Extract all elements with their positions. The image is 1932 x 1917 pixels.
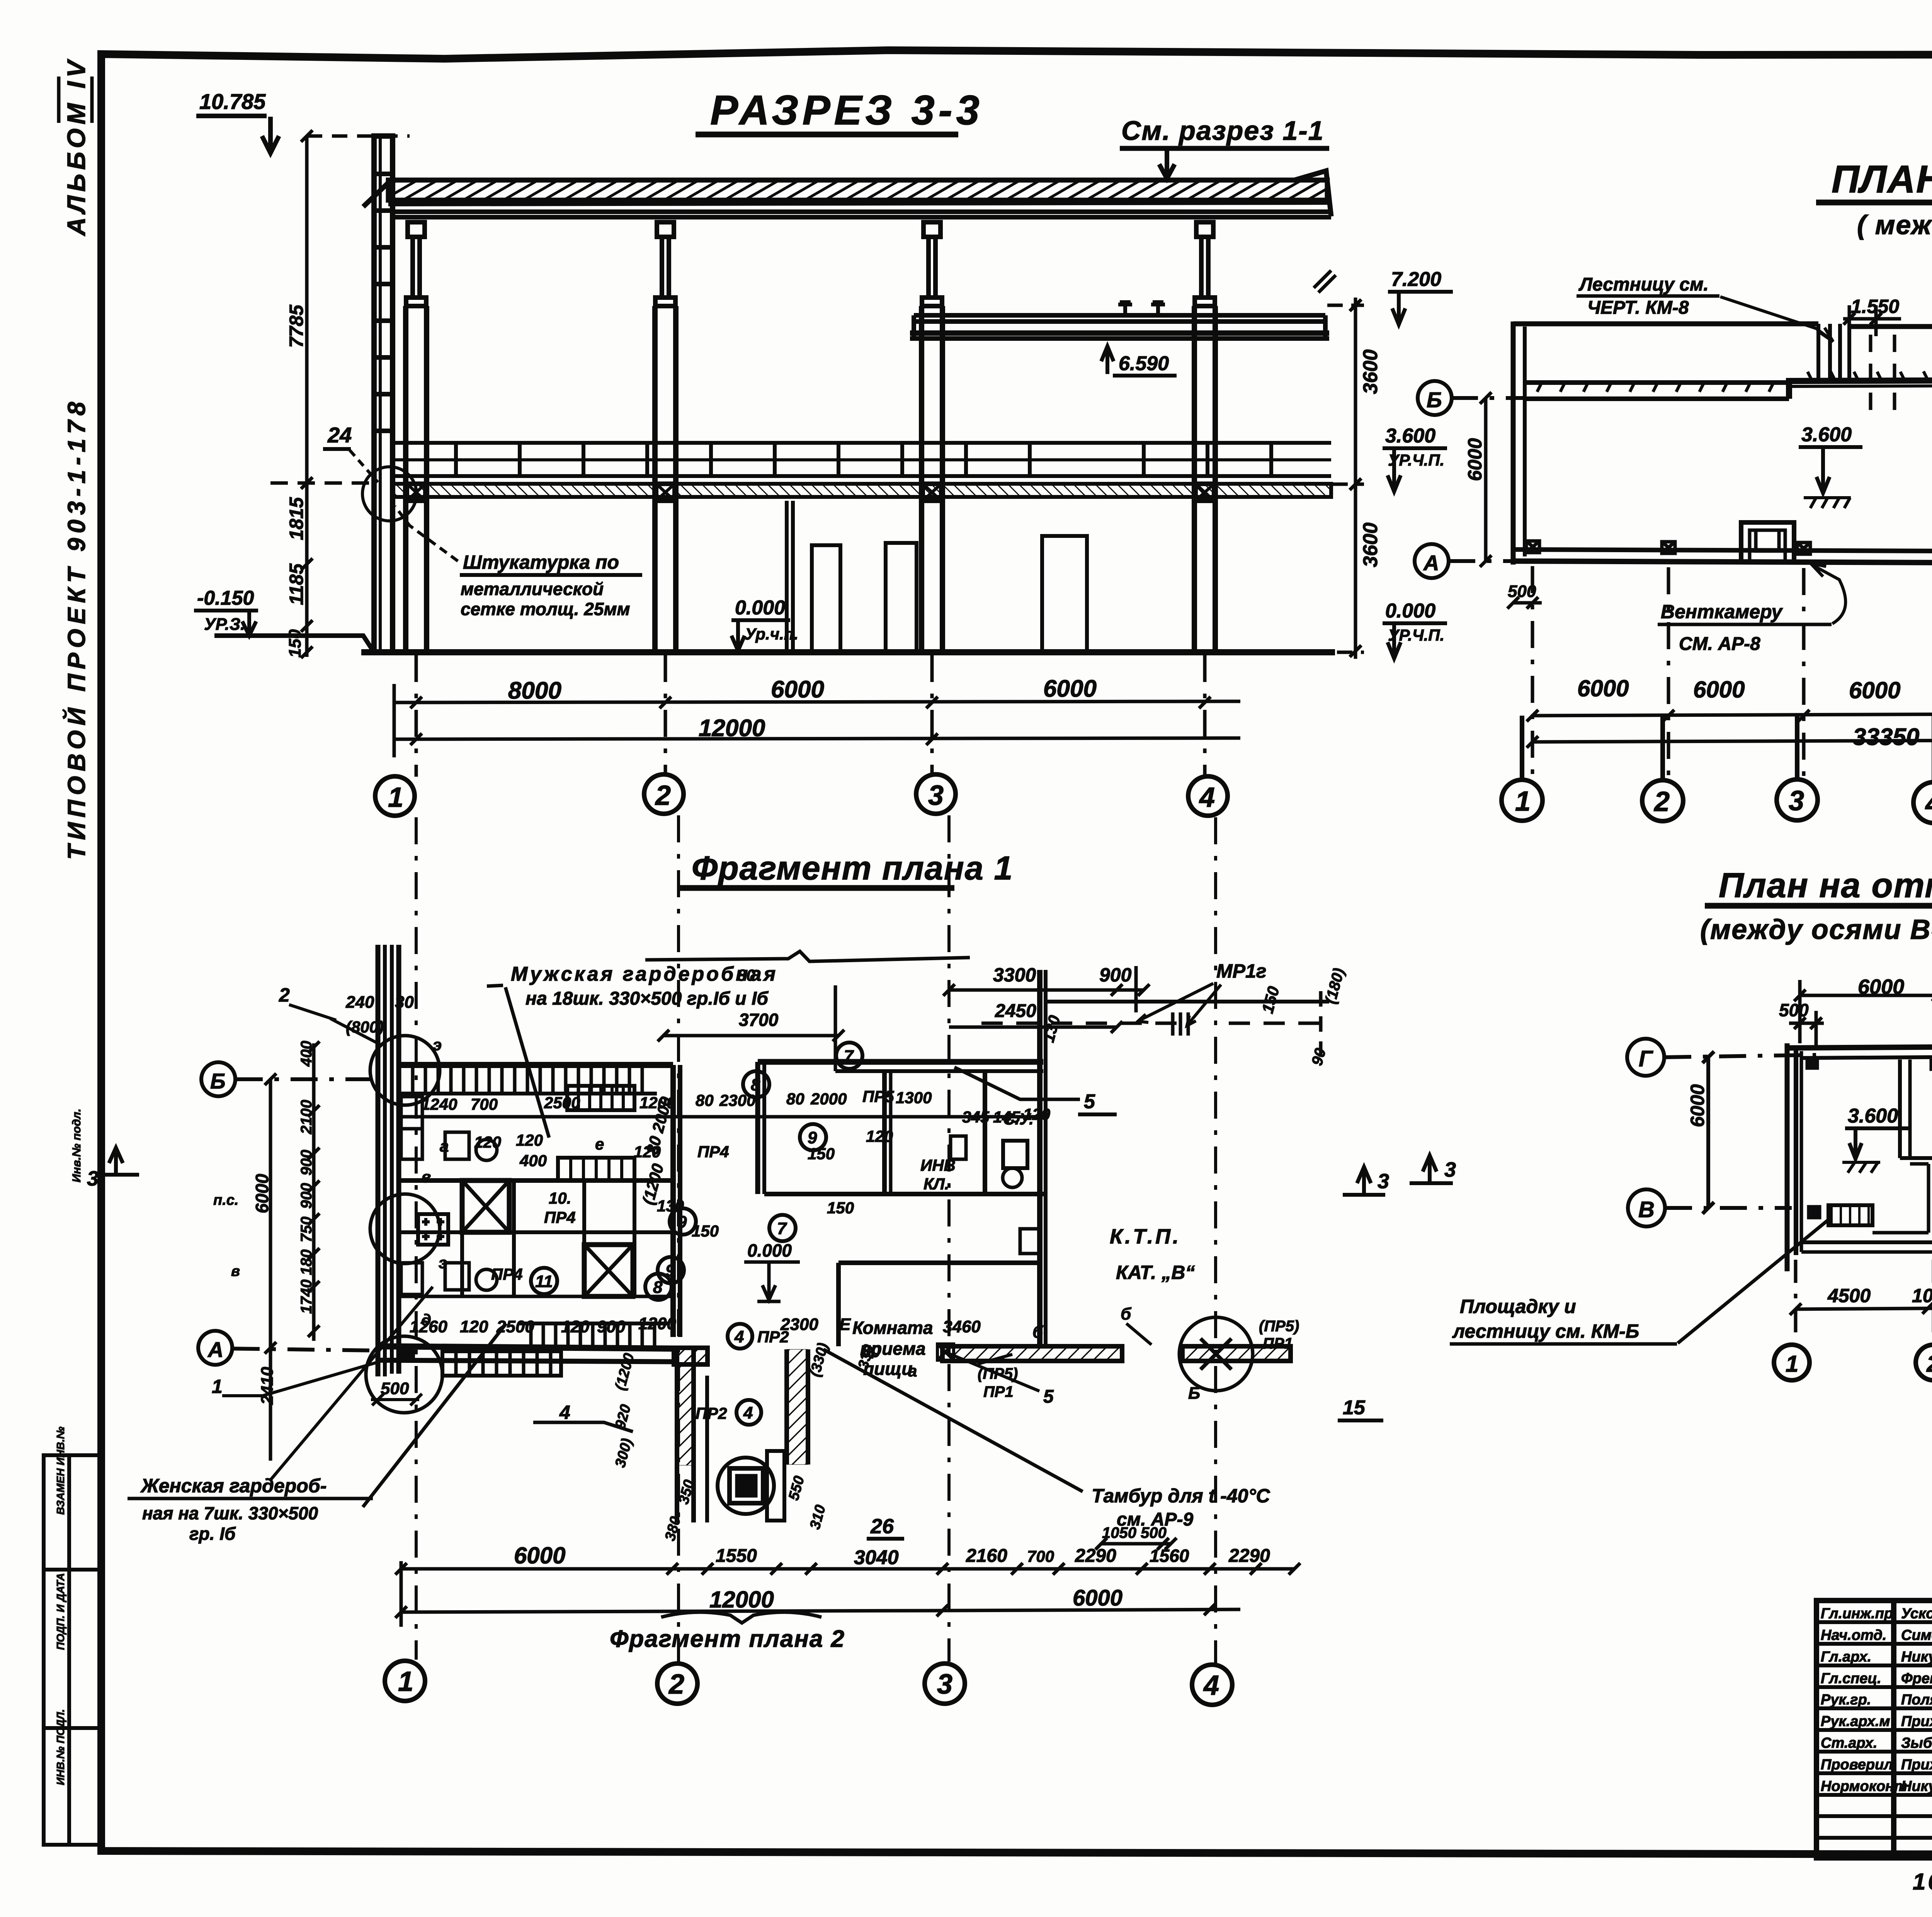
svg-text:А: А [1423,551,1439,575]
svg-text:Лестницу см.: Лестницу см. [1578,274,1709,295]
svg-text:УР.Ч.П.: УР.Ч.П. [1388,451,1444,469]
svg-text:1740: 1740 [298,1279,315,1314]
svg-text:3600: 3600 [1359,522,1382,567]
svg-text:Б: Б [1427,388,1442,412]
svg-text:500: 500 [381,1379,409,1398]
svg-text:900: 900 [298,1183,315,1209]
svg-text:(ПР5): (ПР5) [1259,1318,1299,1335]
svg-text:80: 80 [696,1091,714,1109]
svg-text:Зыбина: Зыбина [1901,1735,1932,1751]
svg-text:э: э [433,1036,442,1054]
svg-text:380: 380 [662,1515,684,1543]
svg-text:(180): (180) [1322,966,1348,1006]
svg-text:1: 1 [1515,786,1531,817]
svg-text:Приходько: Приходько [1901,1757,1932,1773]
svg-text:920: 920 [612,1403,634,1431]
svg-text:Рук.гр.: Рук.гр. [1821,1692,1871,1708]
svg-text:900: 900 [298,1150,315,1175]
svg-text:6000: 6000 [1693,677,1745,703]
svg-text:ТИПОВОЙ ПРОЕКТ 903-1-178: ТИПОВОЙ ПРОЕКТ 903-1-178 [62,397,90,860]
svg-text:2500: 2500 [544,1094,580,1112]
svg-text:Площадку и: Площадку и [1460,1296,1576,1317]
svg-text:1260: 1260 [410,1317,447,1336]
svg-text:6000: 6000 [1577,675,1629,701]
svg-text:гр. Iб: гр. Iб [189,1524,236,1544]
svg-text:9: 9 [665,1261,675,1280]
svg-text:3.600: 3.600 [1801,424,1852,446]
svg-text:е: е [595,1135,604,1153]
svg-text:4: 4 [559,1402,570,1423]
svg-text:Никулин: Никулин [1901,1649,1932,1665]
svg-text:4: 4 [743,1403,753,1422]
svg-text:АЛЬБОМ IV: АЛЬБОМ IV [62,57,90,236]
svg-text:6000: 6000 [252,1174,272,1213]
svg-text:6.590: 6.590 [1119,352,1169,375]
svg-text:1815: 1815 [286,497,307,540]
svg-text:6000: 6000 [1043,675,1097,702]
svg-text:Б: Б [1188,1384,1200,1403]
svg-text:К.Т.П.: К.Т.П. [1110,1225,1181,1248]
svg-text:Приходько: Приходько [1901,1713,1932,1730]
svg-text:Полякова: Полякова [1901,1692,1932,1708]
svg-text:Фрагмент плана 2: Фрагмент плана 2 [610,1626,845,1652]
svg-text:Е: Е [839,1315,851,1334]
svg-text:1550: 1550 [716,1546,757,1566]
svg-text:700: 700 [471,1095,498,1113]
svg-text:ИНВ.№ ПОДЛ.: ИНВ.№ ПОДЛ. [54,1709,66,1785]
svg-text:Никулин: Никулин [1901,1778,1932,1795]
svg-text:90: 90 [1308,1046,1329,1067]
svg-text:ПР2: ПР2 [757,1328,789,1346]
svg-text:3: 3 [87,1167,99,1190]
svg-text:2: 2 [1926,1351,1932,1377]
svg-text:750: 750 [298,1216,315,1242]
svg-text:э: э [439,1254,447,1272]
svg-text:3600: 3600 [1359,349,1382,394]
svg-text:ПР2: ПР2 [696,1404,727,1422]
svg-text:ПЛАН НА ОТМ. 3.600: ПЛАН НА ОТМ. 3.600 [1832,158,1932,201]
svg-text:6000: 6000 [1849,677,1900,703]
svg-text:6000: 6000 [1073,1585,1122,1611]
svg-text:Проверил: Проверил [1821,1757,1893,1773]
svg-text:400: 400 [519,1152,547,1170]
svg-text:Штукатурка по: Штукатурка по [463,551,619,573]
svg-text:2000: 2000 [810,1090,847,1108]
svg-text:12000: 12000 [699,715,765,742]
svg-text:ПР1: ПР1 [983,1383,1014,1400]
svg-text:12000: 12000 [709,1587,774,1613]
svg-text:1: 1 [388,782,403,813]
svg-text:2: 2 [1653,786,1670,817]
svg-text:150: 150 [827,1199,854,1217]
svg-text:МР1г: МР1г [1216,960,1267,982]
svg-text:3: 3 [1444,1158,1456,1181]
svg-text:6000: 6000 [1464,438,1486,481]
svg-text:11: 11 [535,1272,553,1291]
svg-text:( между осями А-Б и 1-6 ): ( между осями А-Б и 1-6 ) [1857,210,1932,240]
svg-text:Гл.инж.пр: Гл.инж.пр [1821,1606,1893,1622]
svg-text:в: в [421,1168,431,1186]
svg-text:0.000: 0.000 [747,1240,792,1260]
svg-text:Б: Б [210,1069,226,1093]
svg-text:С.У.: С.У. [1003,1110,1034,1128]
svg-text:700: 700 [1027,1547,1054,1565]
svg-text:2290: 2290 [1075,1546,1116,1566]
svg-text:2: 2 [279,984,290,1006]
svg-text:120: 120 [561,1317,590,1336]
svg-text:4: 4 [734,1327,744,1346]
svg-text:металлической: металлической [461,579,604,599]
svg-text:4: 4 [1199,782,1215,813]
svg-text:б: б [1032,1323,1044,1342]
svg-text:24: 24 [327,423,352,447]
svg-text:-0.150: -0.150 [197,587,254,609]
svg-text:Нормоконт: Нормоконт [1821,1778,1907,1795]
svg-text:Ур.ч.п.: Ур.ч.п. [745,625,798,643]
svg-text:Комната: Комната [852,1318,933,1338]
svg-text:3.600: 3.600 [1848,1105,1898,1127]
svg-text:345: 345 [962,1108,990,1126]
svg-text:240: 240 [345,993,374,1012]
svg-text:(между осями В-Г и 1-2): (между осями В-Г и 1-2) [1700,914,1932,945]
svg-text:Гл.спец.: Гл.спец. [1821,1670,1881,1687]
svg-text:80: 80 [737,966,755,984]
svg-text:8: 8 [653,1278,663,1297]
svg-text:Симонов: Симонов [1901,1627,1932,1643]
svg-text:ЧЕРТ. КМ-8: ЧЕРТ. КМ-8 [1587,298,1689,318]
svg-text:130: 130 [657,1197,684,1215]
svg-text:7.200: 7.200 [1391,268,1441,291]
svg-text:2160: 2160 [966,1546,1007,1566]
svg-text:СМ. АР-8: СМ. АР-8 [1679,634,1760,654]
svg-text:310: 310 [807,1503,829,1531]
svg-text:КЛ.: КЛ. [923,1175,949,1193]
svg-text:3: 3 [1789,786,1804,816]
svg-text:(ПР5): (ПР5) [978,1365,1018,1382]
svg-text:Инв.№ подл.: Инв.№ подл. [70,1109,83,1182]
svg-text:120: 120 [460,1317,488,1336]
svg-text:РАЗРЕЗ 3-3: РАЗРЕЗ 3-3 [710,87,983,133]
svg-text:4500: 4500 [1827,1285,1871,1306]
svg-text:6000: 6000 [514,1543,565,1568]
svg-text:10.: 10. [549,1189,571,1207]
svg-text:ПР4: ПР4 [544,1208,576,1226]
svg-text:лестницу см. КМ-Б: лестницу см. КМ-Б [1452,1320,1639,1342]
svg-text:УР.Ч.П.: УР.Ч.П. [1388,626,1444,644]
svg-text:10.785: 10.785 [199,89,266,114]
svg-text:1240: 1240 [421,1095,457,1113]
svg-text:9: 9 [677,1213,687,1232]
svg-text:4: 4 [1203,1670,1219,1701]
svg-text:7: 7 [777,1219,787,1238]
svg-text:3700: 3700 [739,1010,779,1030]
svg-text:ная на 7шк. 330×500: ная на 7шк. 330×500 [142,1503,318,1523]
svg-text:130: 130 [1039,1013,1064,1044]
svg-text:0.000: 0.000 [1385,600,1435,622]
svg-text:1: 1 [1786,1351,1798,1377]
svg-text:КАТ. „В“: КАТ. „В“ [1116,1262,1195,1283]
svg-text:120: 120 [516,1131,543,1149]
svg-text:1200: 1200 [638,1314,676,1333]
svg-text:16682-04 9: 16682-04 9 [1913,1869,1932,1895]
svg-text:Венткамеру: Венткамеру [1661,601,1783,623]
svg-text:б: б [1121,1305,1132,1323]
svg-text:550: 550 [786,1474,808,1502]
svg-text:33350: 33350 [1853,724,1919,750]
svg-text:а: а [908,1362,917,1380]
svg-text:на 18шк. 330×500 гр.Iб и Iб: на 18шк. 330×500 гр.Iб и Iб [526,988,769,1009]
svg-text:1300: 1300 [896,1089,932,1107]
svg-text:3300: 3300 [993,964,1036,986]
svg-text:Френкель: Френкель [1901,1670,1932,1687]
svg-text:150: 150 [286,629,304,658]
svg-text:Нач.отд.: Нач.отд. [1821,1627,1886,1643]
svg-text:30: 30 [395,993,414,1012]
svg-text:180: 180 [298,1249,315,1275]
svg-text:3460: 3460 [943,1317,981,1336]
svg-text:500: 500 [1779,1000,1809,1020]
svg-text:1000: 1000 [1912,1285,1932,1306]
svg-text:Женская гардероб-: Женская гардероб- [140,1475,327,1497]
svg-text:В: В [1638,1197,1655,1222]
svg-text:6000: 6000 [1687,1084,1708,1127]
svg-text:УР.З.: УР.З. [204,615,245,634]
svg-text:5: 5 [1084,1090,1095,1113]
svg-text:120: 120 [866,1127,893,1145]
svg-text:3.600: 3.600 [1385,425,1435,447]
svg-text:6000: 6000 [1858,975,1904,998]
svg-text:4: 4 [1925,788,1932,819]
svg-text:8000: 8000 [508,677,561,704]
svg-text:(1200: (1200 [612,1352,638,1392]
svg-text:1185: 1185 [286,563,307,605]
svg-text:150: 150 [1258,984,1283,1015]
svg-text:2450: 2450 [995,1001,1036,1021]
svg-text:ПР5: ПР5 [862,1087,894,1106]
svg-text:ПР4: ПР4 [491,1265,523,1283]
svg-text:3: 3 [937,1669,952,1700]
svg-text:(330): (330) [807,1341,832,1379]
svg-text:900: 900 [1099,964,1132,986]
svg-text:ПР1: ПР1 [1263,1335,1293,1352]
svg-text:6000: 6000 [771,676,824,703]
svg-text:7: 7 [844,1047,854,1066]
svg-text:См. разрез 1-1: См. разрез 1-1 [1121,116,1324,146]
svg-text:2: 2 [655,780,671,811]
svg-text:5: 5 [1043,1386,1054,1407]
svg-text:сетке толщ. 25мм: сетке толщ. 25мм [461,599,630,619]
svg-text:2: 2 [668,1669,684,1700]
svg-text:1: 1 [398,1666,413,1697]
svg-text:1: 1 [212,1376,223,1397]
svg-text:2410: 2410 [258,1367,277,1405]
svg-text:3040: 3040 [854,1546,899,1569]
svg-text:0.000: 0.000 [735,597,785,619]
svg-text:120: 120 [474,1133,501,1151]
svg-text:7785: 7785 [286,304,307,348]
svg-text:п.с.: п.с. [213,1192,238,1208]
svg-text:(800): (800) [346,1018,384,1036]
svg-text:15: 15 [1343,1397,1366,1419]
svg-text:2290: 2290 [1228,1546,1270,1566]
svg-text:Тамбур для t -40°C: Тамбур для t -40°C [1092,1485,1270,1507]
svg-text:в: в [231,1263,240,1279]
svg-text:Ускова: Ускова [1901,1606,1932,1622]
svg-text:9: 9 [808,1128,817,1147]
svg-text:3: 3 [1378,1170,1389,1193]
svg-text:Ст.арх.: Ст.арх. [1821,1735,1877,1751]
svg-text:План на отм. 3.600: План на отм. 3.600 [1719,866,1932,905]
svg-text:2100: 2100 [298,1100,315,1135]
svg-text:А: А [207,1337,223,1362]
svg-text:1560: 1560 [1150,1546,1189,1566]
svg-text:26: 26 [870,1515,894,1538]
svg-text:Гл.арх.: Гл.арх. [1821,1649,1871,1665]
svg-text:а: а [440,1137,449,1155]
svg-text:900: 900 [597,1317,626,1336]
svg-text:1050 500: 1050 500 [1102,1524,1167,1541]
svg-text:ПОДП. И ДАТА: ПОДП. И ДАТА [54,1573,66,1650]
svg-text:ПР4: ПР4 [697,1143,729,1161]
svg-text:Фрагмент плана 1: Фрагмент плана 1 [692,850,1013,887]
svg-text:300): 300) [612,1437,635,1469]
svg-text:ИНВ: ИНВ [920,1156,956,1174]
svg-text:ВЗАМЕН ИНВ.№: ВЗАМЕН ИНВ.№ [54,1427,66,1515]
svg-text:Рук.арх.м: Рук.арх.м [1821,1713,1890,1730]
svg-text:80: 80 [786,1090,804,1108]
svg-text:Г: Г [1639,1046,1653,1072]
svg-text:3: 3 [928,780,944,811]
svg-text:8: 8 [751,1075,760,1094]
svg-text:2500: 2500 [496,1317,534,1336]
svg-text:400: 400 [298,1041,315,1067]
